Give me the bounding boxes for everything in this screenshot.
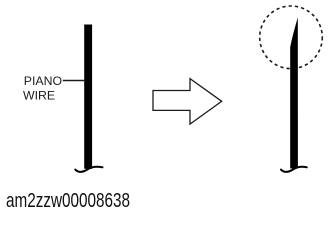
svg-text:WIRE: WIRE (23, 89, 55, 103)
svg-text:am2zzw00008638: am2zzw00008638 (6, 190, 130, 212)
svg-text:PIANO: PIANO (24, 74, 62, 88)
